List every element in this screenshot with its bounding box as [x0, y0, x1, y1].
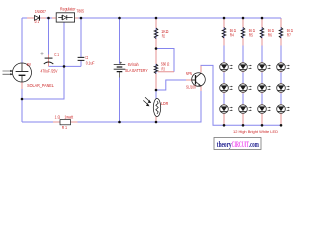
svg-text:C 1: C 1 [54, 52, 59, 57]
svg-text:1watt: 1watt [64, 114, 73, 119]
svg-text:SOLAR_PANEL: SOLAR_PANEL [27, 83, 54, 88]
svg-text:R5: R5 [249, 32, 254, 37]
svg-text:R4: R4 [230, 32, 235, 37]
svg-text:R7: R7 [287, 32, 292, 37]
svg-text:Regulator: Regulator [60, 7, 76, 12]
svg-text:SL/100: SL/100 [186, 85, 196, 90]
svg-text:470uF /25V: 470uF /25V [41, 68, 58, 73]
svg-text:1N4007: 1N4007 [35, 9, 47, 14]
svg-text:7805: 7805 [77, 9, 85, 14]
svg-text:.com: .com [249, 140, 259, 149]
svg-text:SLA BATTERY: SLA BATTERY [125, 68, 148, 73]
svg-text:6V/4ah: 6V/4ah [128, 62, 139, 67]
svg-text:C2: C2 [85, 55, 88, 60]
svg-text:R 1: R 1 [62, 125, 68, 130]
svg-text:8V: 8V [27, 62, 31, 67]
svg-text:NPN: NPN [186, 71, 192, 76]
svg-text:R3: R3 [162, 66, 166, 71]
svg-text:CIRCUIT: CIRCUIT [232, 140, 250, 149]
svg-text:theory: theory [217, 140, 232, 149]
svg-text:R6: R6 [268, 32, 273, 37]
svg-text:12 High Bright White LED: 12 High Bright White LED [233, 129, 278, 134]
svg-text:LDR: LDR [161, 101, 168, 106]
svg-text:D 1: D 1 [35, 19, 40, 24]
svg-text:1 Ω: 1 Ω [55, 114, 61, 119]
svg-text:0.1uF: 0.1uF [86, 61, 95, 66]
svg-text:R2: R2 [162, 33, 166, 38]
